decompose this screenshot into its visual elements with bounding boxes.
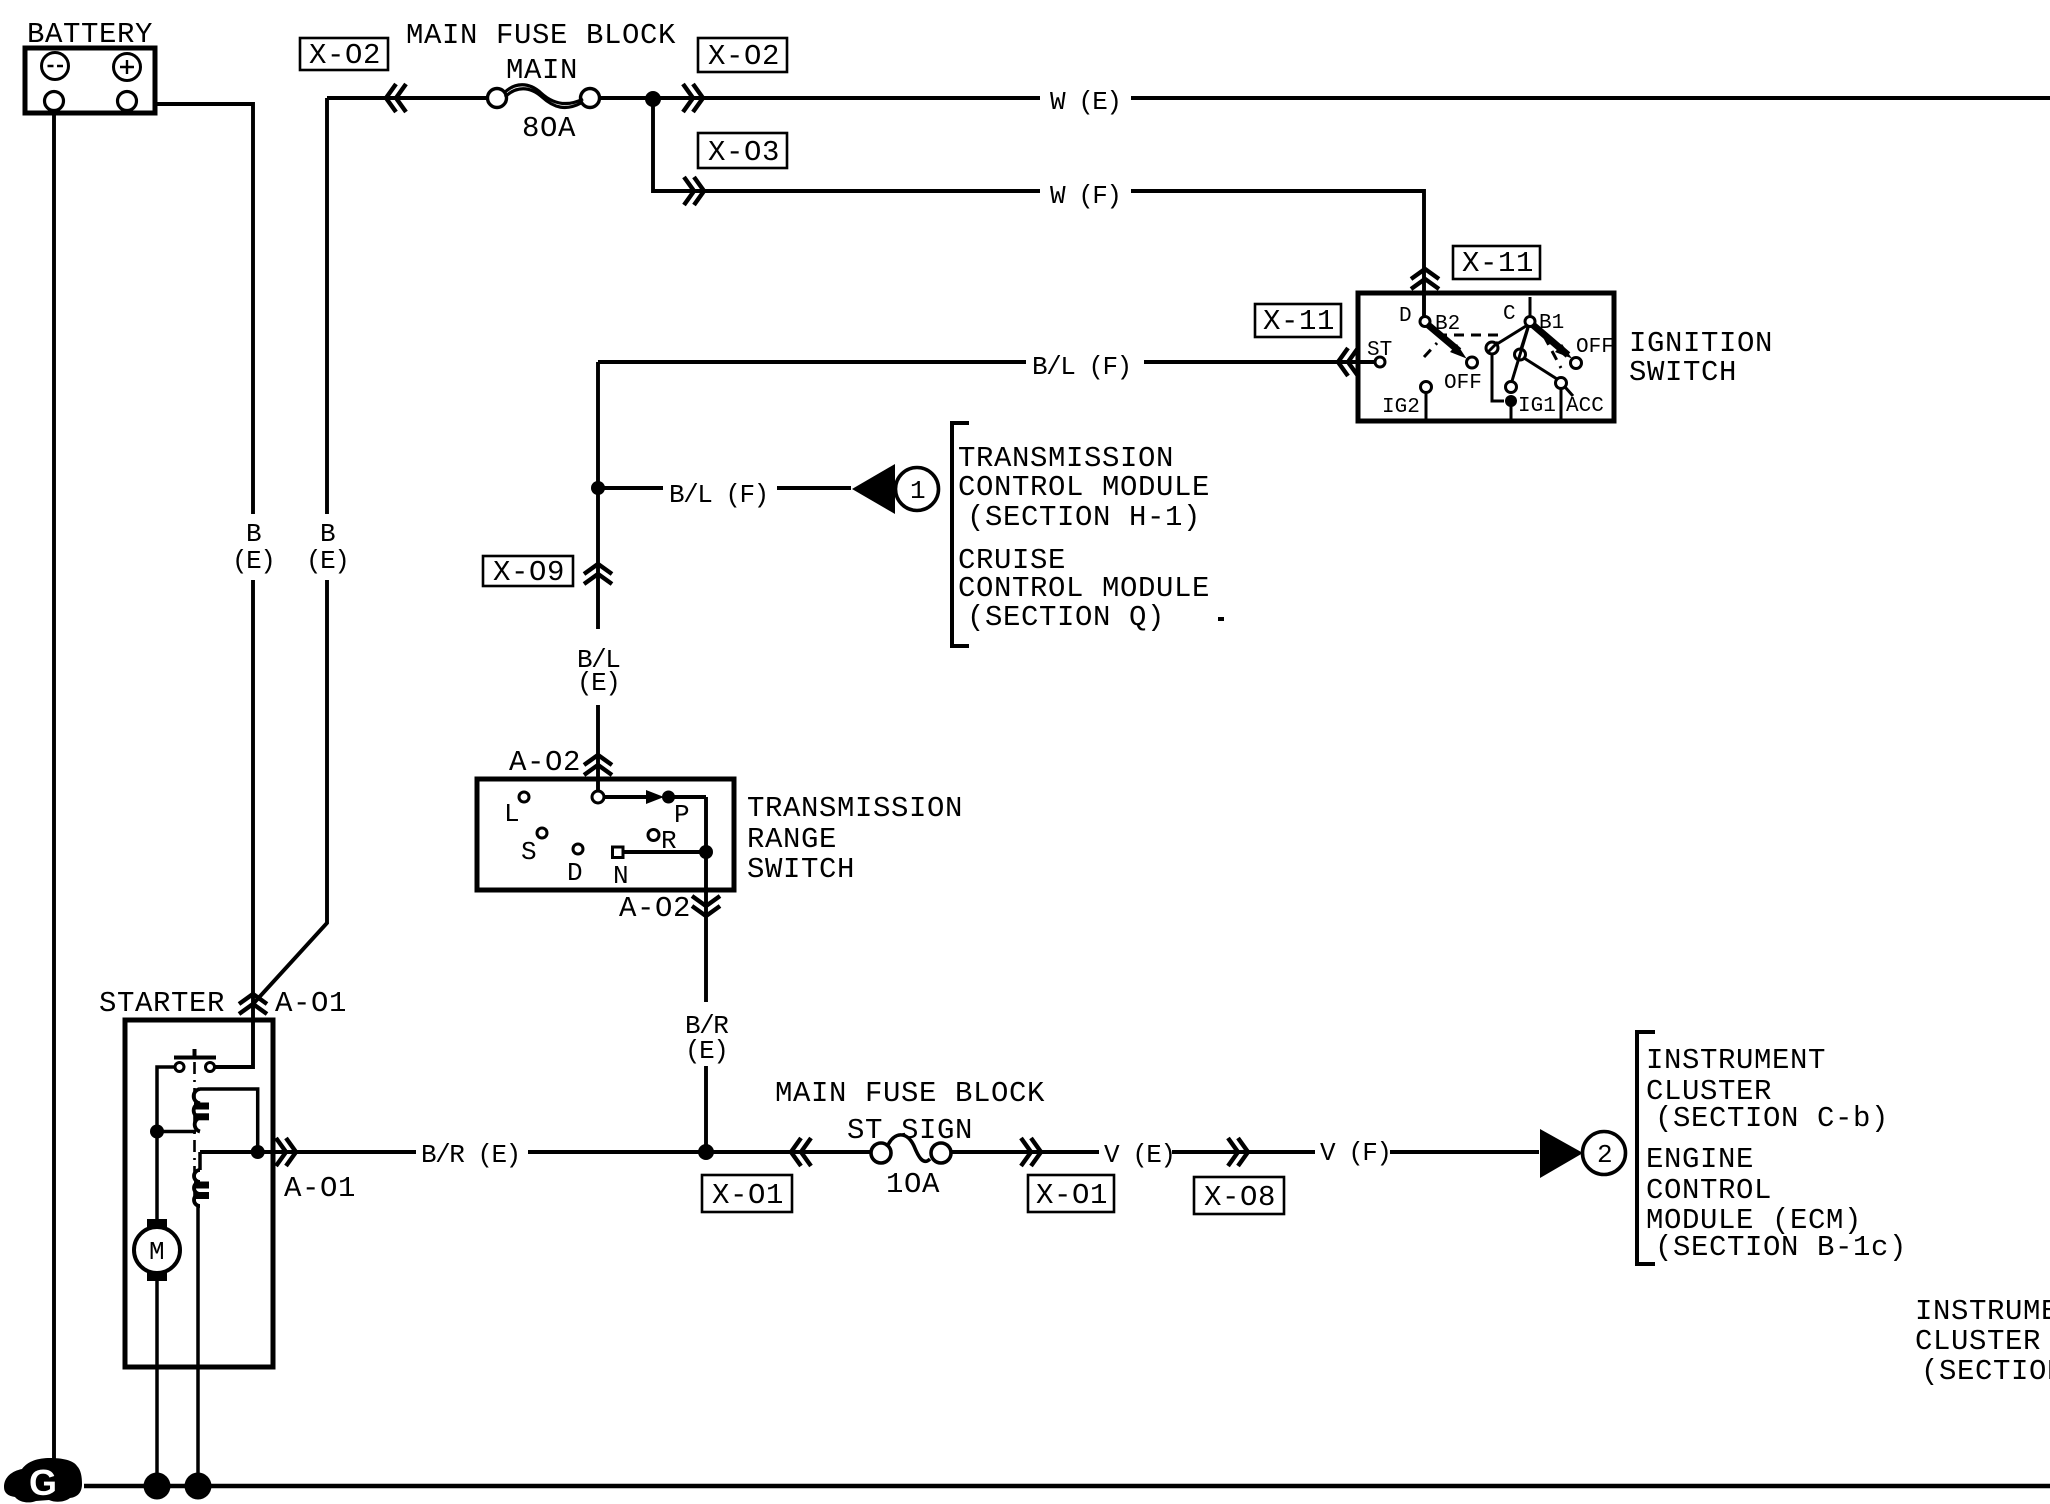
svg-text:ACC: ACC xyxy=(1566,395,1604,418)
svg-text:D: D xyxy=(567,858,583,888)
svg-text:(E): (E) xyxy=(577,668,619,698)
svg-text:8OA: 8OA xyxy=(522,112,576,145)
svg-text:P: P xyxy=(674,800,690,830)
svg-text:B: B xyxy=(320,519,335,549)
svg-text:X-11: X-11 xyxy=(1462,247,1534,280)
svg-text:X-O1: X-O1 xyxy=(712,1179,784,1212)
svg-text:V (F): V (F) xyxy=(1320,1138,1391,1168)
svg-text:G: G xyxy=(29,1462,57,1503)
svg-text:INSTRUMENT: INSTRUMENT xyxy=(1646,1044,1826,1077)
svg-text:OFF: OFF xyxy=(1576,336,1614,359)
svg-text:CONTROL MODULE: CONTROL MODULE xyxy=(958,471,1210,504)
svg-text:L: L xyxy=(504,799,520,829)
svg-text:STARTER: STARTER xyxy=(99,987,225,1020)
svg-text:(E): (E) xyxy=(232,546,274,576)
svg-text:(SECTION C-b): (SECTION C-b) xyxy=(1655,1102,1889,1135)
svg-text:(E): (E) xyxy=(685,1036,727,1066)
svg-text:MAIN: MAIN xyxy=(506,54,578,87)
svg-text:M: M xyxy=(149,1237,165,1267)
svg-text:B2: B2 xyxy=(1435,313,1460,336)
svg-text:(SECTION: (SECTION xyxy=(1921,1355,2050,1388)
svg-text:CONTROL: CONTROL xyxy=(1646,1174,1772,1207)
svg-text:X-O8: X-O8 xyxy=(1204,1181,1276,1214)
svg-text:INSTRUMENT: INSTRUMENT xyxy=(1915,1295,2050,1328)
svg-text:R: R xyxy=(661,826,677,856)
svg-text:B1: B1 xyxy=(1539,312,1564,335)
svg-text:ENGINE: ENGINE xyxy=(1646,1143,1754,1176)
svg-text:B/R (E): B/R (E) xyxy=(421,1140,520,1170)
svg-text:A-O2: A-O2 xyxy=(619,892,691,925)
svg-text:B/L (F): B/L (F) xyxy=(1032,352,1131,382)
svg-text:ST: ST xyxy=(1367,339,1392,362)
svg-text:B: B xyxy=(246,519,261,549)
svg-text:MAIN FUSE BLOCK: MAIN FUSE BLOCK xyxy=(775,1077,1045,1110)
svg-text:1OA: 1OA xyxy=(886,1168,940,1201)
svg-text:A-O2: A-O2 xyxy=(509,746,581,779)
svg-text:W (E): W (E) xyxy=(1050,87,1121,117)
svg-text:A-O1: A-O1 xyxy=(275,987,347,1020)
svg-text:S: S xyxy=(521,837,537,867)
svg-text:2: 2 xyxy=(1597,1140,1613,1170)
svg-text:B/L (F): B/L (F) xyxy=(669,480,768,510)
svg-text:(SECTION H-1): (SECTION H-1) xyxy=(967,501,1201,534)
svg-text:SWITCH: SWITCH xyxy=(747,853,855,886)
svg-text:V (E): V (E) xyxy=(1104,1140,1175,1170)
svg-text:X-O9: X-O9 xyxy=(493,556,565,589)
svg-text:A-O1: A-O1 xyxy=(284,1172,356,1205)
svg-text:IG1: IG1 xyxy=(1518,395,1556,418)
svg-text:(SECTION Q): (SECTION Q) xyxy=(967,601,1165,634)
svg-text:RANGE: RANGE xyxy=(747,823,837,856)
svg-text:MAIN FUSE BLOCK: MAIN FUSE BLOCK xyxy=(406,19,676,52)
svg-text:1: 1 xyxy=(910,476,926,506)
svg-text:(SECTION B-1c): (SECTION B-1c) xyxy=(1655,1231,1907,1264)
svg-text:X-O1: X-O1 xyxy=(1036,1179,1108,1212)
svg-text:X-11: X-11 xyxy=(1263,305,1335,338)
svg-text:N: N xyxy=(613,861,629,891)
svg-text:OFF: OFF xyxy=(1444,372,1482,395)
svg-text:SWITCH: SWITCH xyxy=(1629,356,1737,389)
svg-text:D: D xyxy=(1399,305,1412,328)
svg-text:IG2: IG2 xyxy=(1382,396,1420,419)
svg-text:X-O2: X-O2 xyxy=(708,40,780,73)
svg-text:CLUSTER: CLUSTER xyxy=(1915,1325,2041,1358)
svg-text:X-O2: X-O2 xyxy=(309,39,381,72)
svg-text:BATTERY: BATTERY xyxy=(27,18,153,51)
svg-text:TRANSMISSION: TRANSMISSION xyxy=(747,792,963,825)
svg-text:X-O3: X-O3 xyxy=(708,136,780,169)
svg-text:C: C xyxy=(1503,303,1516,326)
svg-text:(E): (E) xyxy=(306,546,348,576)
svg-text:W (F): W (F) xyxy=(1050,181,1121,211)
